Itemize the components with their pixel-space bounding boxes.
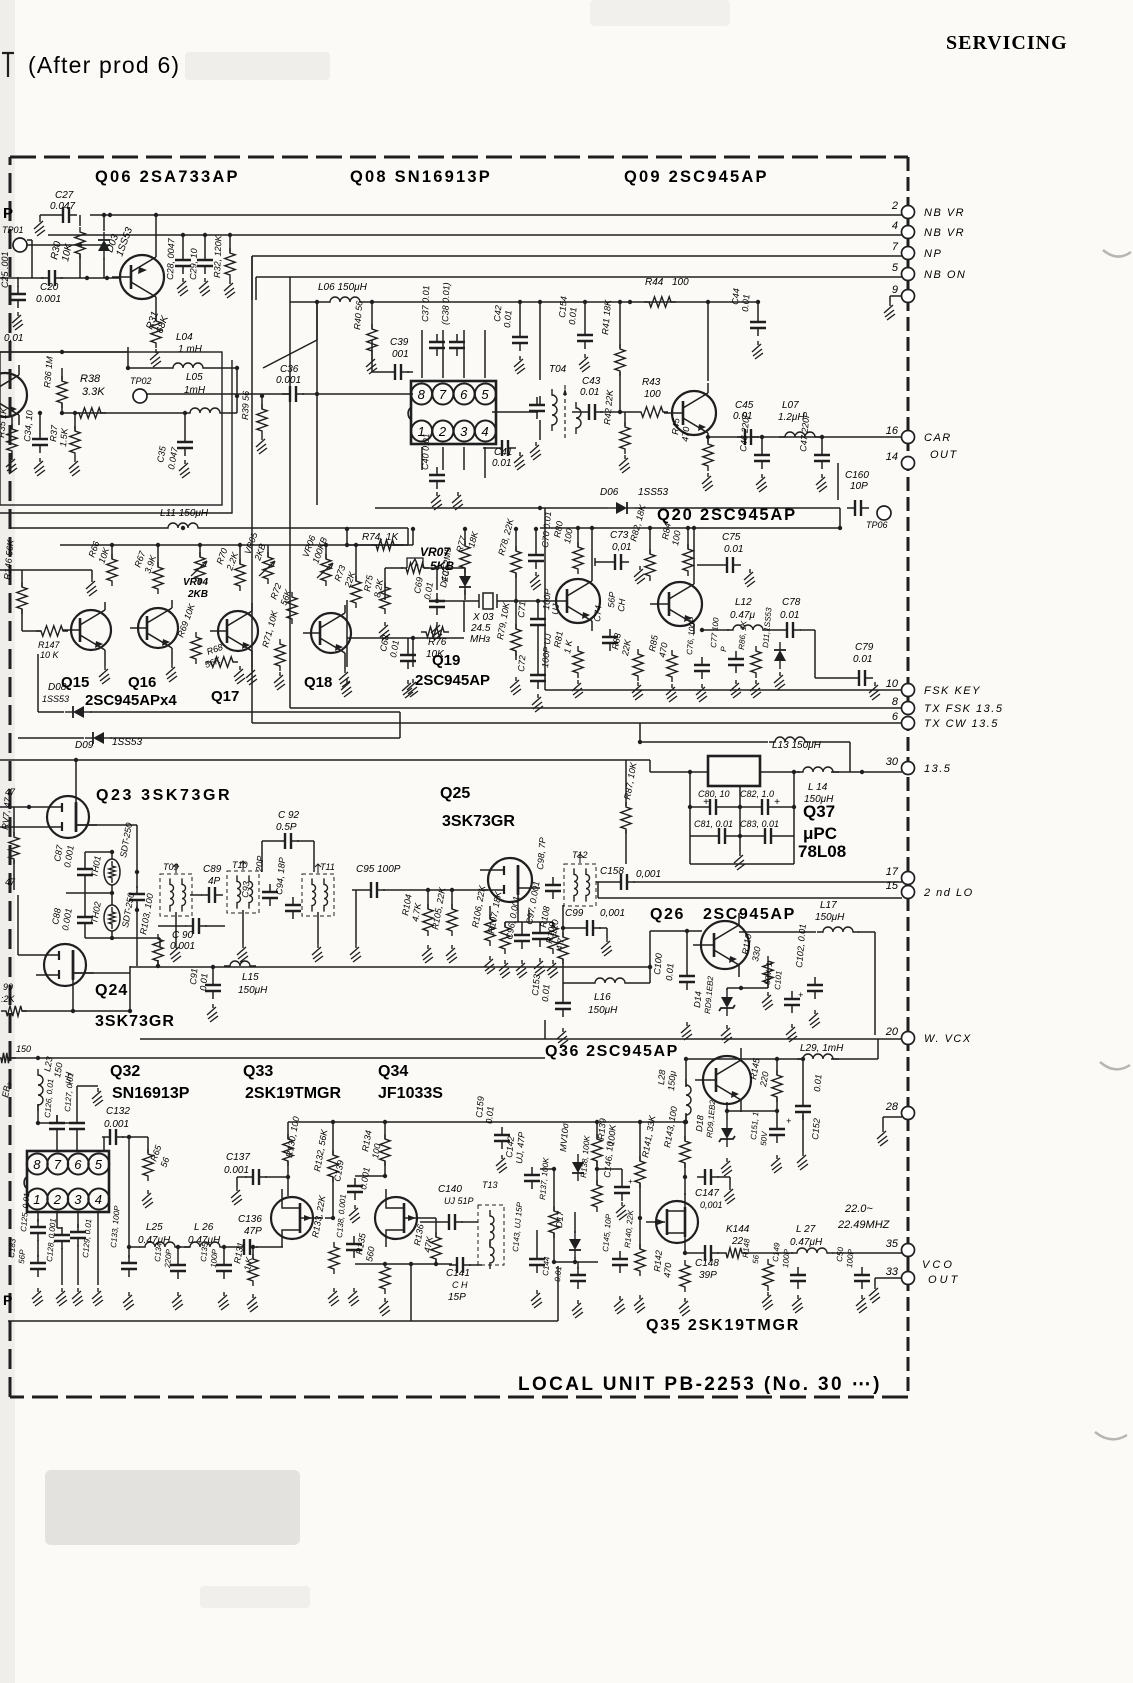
svg-text:L07: L07 — [782, 400, 799, 411]
svg-text:Q08 SN16913P: Q08 SN16913P — [350, 168, 492, 186]
svg-text:UJ 51P: UJ 51P — [444, 1196, 474, 1206]
wire vertical FSK feed — [544, 508, 546, 690]
svg-text:C148: C148 — [695, 1258, 719, 1269]
svg-text:C75: C75 — [722, 532, 741, 543]
svg-text:C78: C78 — [782, 597, 801, 608]
wire R30 D03 bottoms — [79, 254, 81, 278]
svg-text:150μ: 150μ — [666, 1070, 678, 1091]
svg-text:C81, 0.01: C81, 0.01 — [694, 819, 733, 829]
crystal X03 24.5MHz — [483, 593, 493, 609]
fet Q35 — [656, 1201, 698, 1243]
svg-text:0.47μ: 0.47μ — [730, 610, 755, 621]
svg-text:C89: C89 — [203, 864, 222, 875]
transistor Q20b — [658, 582, 702, 626]
svg-text:L28: L28 — [656, 1069, 667, 1085]
wire C132 drop — [128, 1137, 130, 1258]
svg-text:C45: C45 — [735, 400, 754, 411]
svg-text:CH: CH — [616, 598, 627, 612]
wire Q23 source to rail — [75, 760, 77, 788]
ground pin9 — [890, 295, 902, 297]
wire TH02 bottom — [112, 937, 160, 939]
svg-text:JF1033S: JF1033S — [378, 1085, 443, 1102]
wire Q26 base — [650, 930, 702, 932]
svg-text:OUT: OUT — [930, 449, 958, 461]
regulator Q37 78L08 — [708, 756, 760, 786]
terminal 8 TX FSK — [290, 707, 902, 709]
svg-text:+: + — [786, 1116, 791, 1126]
wire rail drops — [412, 529, 414, 545]
svg-text:C 90: C 90 — [172, 930, 194, 941]
svg-text:6: 6 — [74, 1157, 82, 1172]
svg-text:8: 8 — [418, 387, 426, 402]
transistor Q26 — [701, 921, 749, 969]
svg-text:L 26: L 26 — [194, 1222, 214, 1233]
dashed border LOCAL UNIT box left — [9, 157, 12, 1397]
svg-text:3: 3 — [74, 1192, 82, 1207]
svg-text:D06: D06 — [600, 487, 619, 498]
svg-text:Q19: Q19 — [432, 652, 460, 669]
svg-text:T11: T11 — [320, 862, 335, 872]
ground R75 — [379, 622, 390, 640]
svg-text:C101: C101 — [773, 970, 784, 990]
svg-text:2: 2 — [438, 424, 447, 439]
terminal 5 NB ON — [902, 268, 915, 281]
svg-text:Q36 2SC945AP: Q36 2SC945AP — [545, 1043, 679, 1060]
test point TP01 — [13, 238, 27, 252]
svg-text:0.5P: 0.5P — [276, 822, 297, 833]
svg-text:0.001: 0.001 — [36, 294, 61, 305]
svg-text:C93: C93 — [240, 881, 251, 898]
svg-text:C50: C50 — [835, 1246, 845, 1262]
wire ic pins top — [421, 330, 423, 378]
svg-text:0.01: 0.01 — [198, 973, 209, 991]
svg-text:4: 4 — [892, 220, 898, 232]
svg-text:8: 8 — [33, 1157, 41, 1172]
svg-text:0.001: 0.001 — [224, 1165, 249, 1176]
wire mixer bottom rail — [130, 966, 650, 968]
wire NB ON bus pin5 — [256, 276, 902, 278]
svg-text:NB ON: NB ON — [924, 269, 966, 281]
svg-text:2 nd LO: 2 nd LO — [923, 887, 974, 899]
svg-text:2SC945AP: 2SC945AP — [703, 906, 796, 923]
wire Q24 gate feed — [18, 954, 36, 956]
svg-text:0,001: 0,001 — [700, 1200, 723, 1210]
svg-text:7: 7 — [892, 241, 899, 253]
svg-text:C140: C140 — [438, 1184, 462, 1195]
svg-text:3SK73GR: 3SK73GR — [95, 1013, 175, 1030]
svg-text:Q33: Q33 — [243, 1063, 273, 1080]
wire vertical NB ON feed — [289, 277, 291, 708]
svg-text:L 27: L 27 — [796, 1224, 816, 1235]
wire q19 rail — [540, 527, 840, 529]
terminal 7 NP — [902, 247, 915, 260]
svg-text:3: 3 — [460, 424, 468, 439]
svg-text:56P: 56P — [17, 1249, 27, 1265]
svg-text:78L08: 78L08 — [798, 842, 846, 861]
wire ic pins bottom — [421, 447, 423, 470]
fet Q34 — [375, 1197, 417, 1239]
svg-text:NB VR: NB VR — [924, 207, 965, 219]
svg-text:50V: 50V — [759, 1131, 769, 1147]
wire q33 source rail — [355, 1263, 452, 1265]
svg-text:Q24: Q24 — [95, 982, 128, 999]
svg-text:Q26: Q26 — [650, 906, 685, 923]
svg-text:C132: C132 — [106, 1106, 130, 1117]
svg-text:W. VCX: W. VCX — [924, 1033, 972, 1045]
terminal 28 — [902, 1107, 915, 1120]
svg-text:C149: C149 — [771, 1242, 782, 1262]
svg-text:TP06: TP06 — [866, 520, 888, 530]
dashed border LOCAL UNIT box right — [907, 157, 910, 1397]
svg-text:L 14: L 14 — [808, 782, 828, 793]
svg-text:13.5: 13.5 — [924, 763, 951, 775]
wire Q25 source spread — [505, 921, 553, 923]
svg-text:4P: 4P — [208, 876, 221, 887]
svg-text:D14: D14 — [692, 991, 703, 1008]
ground T09 — [175, 912, 177, 944]
svg-text:R45: R45 — [670, 417, 681, 435]
svg-text:0.01: 0.01 — [740, 294, 751, 312]
ground Q15 emitter — [104, 658, 106, 666]
subcircuit box — [0, 352, 222, 505]
terminal 4 NB VR — [902, 226, 915, 239]
svg-text:C147: C147 — [695, 1188, 719, 1199]
svg-text:0,01: 0,01 — [4, 333, 23, 344]
terminal 14 — [902, 457, 915, 470]
capacitor C83 0.01 — [757, 835, 779, 837]
svg-text:Q18: Q18 — [304, 674, 332, 691]
svg-text:Q23 3SK73GR: Q23 3SK73GR — [96, 787, 232, 804]
svg-text:1.5K: 1.5K — [58, 427, 70, 447]
svg-text:D08: D08 — [48, 682, 67, 693]
svg-text:R39 56: R39 56 — [240, 391, 251, 420]
wire vco bottom rail — [8, 1320, 558, 1322]
svg-text:(After prod 6): (After prod 6) — [28, 52, 180, 78]
svg-text:20P: 20P — [254, 855, 265, 873]
svg-text:0.01: 0.01 — [540, 984, 551, 1002]
svg-text:P: P — [3, 205, 13, 222]
svg-text:15P: 15P — [448, 1292, 466, 1303]
svg-text:C136: C136 — [238, 1214, 262, 1225]
svg-text:22.0~: 22.0~ — [844, 1203, 873, 1215]
svg-text:C71: C71 — [516, 601, 527, 618]
svg-text:1 mH: 1 mH — [178, 344, 203, 355]
svg-text:μPC: μPC — [803, 824, 837, 843]
svg-text:22.49MHZ: 22.49MHZ — [837, 1219, 891, 1231]
svg-text:47: 47 — [5, 787, 16, 797]
terminal 16 CAR OUT — [902, 431, 915, 444]
svg-text:7: 7 — [54, 1157, 62, 1172]
ground R76 row — [341, 679, 352, 697]
wire Q19 collector — [591, 528, 593, 571]
svg-text:Q17: Q17 — [211, 688, 239, 705]
transistor Q17 — [218, 611, 258, 651]
wire regulator bottom — [690, 863, 794, 865]
svg-text:R32, 120K: R32, 120K — [212, 234, 224, 278]
transistor Q19 — [556, 579, 600, 623]
wire Q23 drain bus — [76, 824, 137, 826]
svg-text:TX CW 13.5: TX CW 13.5 — [924, 718, 999, 730]
svg-text:C99: C99 — [565, 908, 584, 919]
terminal 10 FSK KEY — [545, 689, 902, 691]
svg-text:0.01: 0.01 — [484, 1106, 495, 1124]
svg-text:Q25: Q25 — [440, 785, 470, 802]
ground pin4 — [92, 1288, 103, 1306]
svg-text:9: 9 — [892, 284, 898, 296]
terminal 17 2nd LO — [902, 872, 915, 885]
svg-text:4: 4 — [481, 424, 488, 439]
svg-text:0.47μH: 0.47μH — [790, 1237, 823, 1248]
svg-text:150μH: 150μH — [238, 985, 268, 996]
svg-text:D18: D18 — [694, 1115, 705, 1132]
svg-text:4: 4 — [95, 1192, 102, 1207]
svg-text:X 03: X 03 — [472, 612, 494, 623]
wire L04 diagonal — [263, 340, 317, 368]
svg-text:2SC945APx4: 2SC945APx4 — [85, 692, 177, 709]
svg-text:16: 16 — [886, 425, 899, 437]
svg-text:C135: C135 — [199, 1242, 210, 1262]
svg-text:T10: T10 — [232, 860, 248, 870]
svg-text:2SK19TMGR: 2SK19TMGR — [245, 1085, 341, 1102]
wire L16 riser — [649, 967, 651, 983]
fet Q23 — [47, 796, 89, 838]
transistor Q15 — [71, 610, 111, 650]
svg-text:1: 1 — [33, 1192, 40, 1207]
svg-text:150μH: 150μH — [804, 794, 834, 805]
svg-text:K144: K144 — [726, 1224, 750, 1235]
svg-text:O U T: O U T — [928, 1274, 959, 1286]
ground Q17 emitter — [251, 659, 253, 667]
svg-text:10 K: 10 K — [40, 650, 60, 660]
wire Q09 emitter out — [708, 436, 902, 438]
svg-text:C74: C74 — [592, 605, 603, 622]
wire TP01 — [27, 244, 110, 246]
transistor Q16 — [138, 608, 178, 648]
terminal 20 W.VCX — [902, 1032, 915, 1045]
transistor Q05 partial — [0, 373, 27, 417]
svg-text:1SS53: 1SS53 — [638, 487, 668, 498]
svg-text:MHз: MHз — [470, 634, 491, 645]
wire TP01 drop — [27, 239, 32, 241]
dashed border LOCAL UNIT box top — [10, 156, 908, 159]
ground C95 row — [355, 890, 357, 944]
svg-text:L04: L04 — [176, 332, 193, 343]
svg-text:L15: L15 — [242, 972, 259, 983]
svg-text:C95 100P: C95 100P — [356, 864, 401, 875]
svg-text:C183: C183 — [7, 1238, 18, 1258]
svg-text:R76: R76 — [428, 637, 447, 648]
svg-text:L11 150μH: L11 150μH — [160, 508, 209, 519]
svg-text:15: 15 — [886, 880, 899, 892]
svg-text:NB VR: NB VR — [924, 227, 965, 239]
svg-text:R148: R148 — [741, 1238, 752, 1258]
svg-text:0.01: 0.01 — [502, 310, 513, 328]
svg-text:(C38 0.01): (C38 0.01) — [440, 282, 451, 325]
svg-text:0,01: 0,01 — [612, 542, 631, 553]
svg-text:Q35 2SK19TMGR: Q35 2SK19TMGR — [646, 1317, 800, 1334]
svg-text:0.01: 0.01 — [492, 458, 511, 469]
transistor Q36 — [703, 1056, 751, 1104]
svg-text::2K: :2K — [1, 994, 16, 1004]
svg-text:5: 5 — [481, 387, 489, 402]
svg-text:C40 0.01: C40 0.01 — [420, 433, 431, 470]
svg-text:0.01: 0.01 — [812, 1074, 823, 1092]
wire NB VR bus pin4 — [48, 234, 902, 236]
svg-text:24.5: 24.5 — [470, 623, 491, 634]
svg-text:0,001: 0,001 — [600, 908, 625, 919]
wire cap row2 — [690, 835, 711, 837]
terminal 2 NB VR — [902, 206, 915, 219]
svg-text:CAR: CAR — [924, 432, 952, 444]
fet Q25 — [488, 858, 532, 902]
ground T10 — [242, 910, 244, 944]
svg-text:0,001: 0,001 — [636, 869, 661, 880]
svg-text:L12: L12 — [735, 597, 752, 608]
svg-text:Q09 2SC945AP: Q09 2SC945AP — [624, 168, 769, 186]
svg-text:7: 7 — [439, 387, 447, 402]
svg-text:T04: T04 — [549, 364, 567, 375]
transistor Q06 — [120, 255, 164, 299]
svg-text:20: 20 — [885, 1026, 899, 1038]
svg-text:TX FSK 13.5: TX FSK 13.5 — [924, 703, 1003, 715]
svg-text:L25: L25 — [146, 1222, 163, 1233]
svg-text:L05: L05 — [186, 372, 203, 383]
svg-text:99: 99 — [3, 982, 13, 992]
svg-text:Q34: Q34 — [378, 1063, 408, 1080]
svg-text:10: 10 — [886, 678, 899, 690]
svg-text:10P: 10P — [850, 481, 868, 492]
svg-text:14: 14 — [886, 451, 898, 463]
svg-text:3SK73GR: 3SK73GR — [442, 813, 515, 830]
wire Q24 drain — [73, 972, 130, 974]
ic Q08 SN16913P — [411, 381, 496, 444]
svg-text:35: 35 — [886, 1238, 899, 1250]
ground C69 — [431, 622, 442, 640]
wire q19 bottom rail — [347, 637, 464, 639]
svg-text:150: 150 — [16, 1044, 31, 1054]
wire ic32 pin verticals — [37, 1212, 39, 1222]
svg-text:C25 .001: C25 .001 — [0, 251, 10, 288]
svg-text:NP: NP — [924, 248, 942, 260]
svg-text:+: + — [703, 797, 709, 808]
svg-text:VR04: VR04 — [183, 577, 208, 588]
svg-text:D09: D09 — [75, 740, 94, 751]
inductor L14 150uH — [797, 767, 839, 772]
svg-text:R147: R147 — [38, 640, 61, 650]
svg-text:V C O: V C O — [922, 1259, 952, 1271]
svg-text:0.001: 0.001 — [276, 375, 301, 386]
svg-text:TP01: TP01 — [2, 225, 24, 235]
svg-text:Q16: Q16 — [128, 674, 156, 691]
svg-text:Q32: Q32 — [110, 1063, 140, 1080]
svg-text:SERVICING: SERVICING — [946, 32, 1068, 54]
svg-text:L29, 1mH: L29, 1mH — [800, 1043, 844, 1054]
svg-text:L16: L16 — [594, 992, 611, 1003]
test point TP06 — [877, 506, 891, 520]
svg-text:0.001: 0.001 — [104, 1119, 129, 1130]
svg-text:L17: L17 — [820, 900, 837, 911]
ground C27 — [34, 218, 45, 236]
svg-text:C37 0.01: C37 0.01 — [420, 285, 431, 322]
wire vco mid rail — [288, 1121, 685, 1123]
ground Q18 emitter — [344, 661, 346, 669]
ground Q16 emitter — [171, 656, 173, 664]
svg-text:56: 56 — [751, 1254, 761, 1264]
terminal 9 — [902, 290, 915, 303]
page curl marks right edge — [1103, 250, 1131, 257]
wire T04 top — [539, 302, 541, 380]
svg-text:+: + — [798, 990, 803, 1000]
ground T11 — [317, 912, 319, 944]
svg-text:C43: C43 — [582, 376, 601, 387]
capacitor C82 10 — [754, 806, 776, 808]
svg-text:L06 150μH: L06 150μH — [318, 282, 368, 293]
wire 13.5 out — [760, 771, 800, 773]
svg-text:6: 6 — [460, 387, 468, 402]
svg-text:FSK KEY: FSK KEY — [924, 685, 981, 697]
svg-text:C152: C152 — [810, 1118, 822, 1140]
svg-text:470: 470 — [662, 1262, 673, 1278]
svg-text:100K: 100K — [606, 1123, 618, 1146]
wire 13.5 step — [649, 760, 651, 772]
svg-text:39P: 39P — [699, 1270, 717, 1281]
svg-text:R38: R38 — [80, 373, 101, 385]
svg-text:C100: C100 — [652, 953, 664, 975]
terminal 33 — [902, 1272, 915, 1285]
svg-text:1mH: 1mH — [184, 385, 206, 396]
svg-text:+: + — [628, 1177, 633, 1186]
wire q-row top rail — [60, 544, 408, 546]
svg-text:C134: C134 — [153, 1242, 164, 1262]
wire 13.5 rail — [0, 759, 650, 761]
svg-text:C82, 1.0: C82, 1.0 — [740, 789, 774, 799]
wire Q23 gate feed — [0, 806, 39, 808]
terminal 15 — [902, 886, 915, 899]
svg-text:SN16913P: SN16913P — [112, 1085, 190, 1102]
svg-text:0.01: 0.01 — [580, 387, 599, 398]
svg-text:100: 100 — [672, 277, 689, 288]
svg-text:2: 2 — [891, 200, 898, 212]
wire NP bus pin7 — [252, 255, 902, 257]
svg-text:C83, 0.01: C83, 0.01 — [740, 819, 779, 829]
svg-text:C73: C73 — [610, 530, 629, 541]
svg-text:2KB: 2KB — [187, 589, 208, 600]
svg-text:C28, 0047: C28, 0047 — [165, 237, 176, 280]
capacitor C? bus — [136, 886, 138, 908]
transistor Q09 — [672, 391, 716, 435]
wire TP02 — [147, 393, 290, 395]
terminal 30 13.5 — [902, 762, 915, 775]
terminal 6 TX CW — [252, 722, 902, 724]
svg-text:001: 001 — [392, 349, 409, 360]
wire VR07 node — [424, 567, 465, 569]
svg-text:0.01: 0.01 — [567, 307, 578, 325]
test point TP02 — [133, 389, 147, 403]
svg-text:C H: C H — [452, 1280, 468, 1290]
svg-text:1SS53: 1SS53 — [42, 694, 69, 704]
svg-text:100P: 100P — [781, 1248, 792, 1268]
svg-text:C39: C39 — [390, 337, 409, 348]
svg-text:T13: T13 — [482, 1180, 498, 1190]
svg-text:C79: C79 — [855, 642, 874, 653]
fet Q33 — [271, 1197, 313, 1239]
ic Q32 SN16913P — [27, 1151, 109, 1212]
svg-text:2: 2 — [53, 1192, 62, 1207]
wire W.VCX — [140, 1038, 902, 1040]
svg-text:LOCAL UNIT PB-2253 (No. 30: LOCAL UNIT PB-2253 (No. 30 ⋯) — [518, 1374, 882, 1395]
svg-text:0.01: 0.01 — [664, 963, 675, 981]
svg-text:C137: C137 — [226, 1152, 250, 1163]
